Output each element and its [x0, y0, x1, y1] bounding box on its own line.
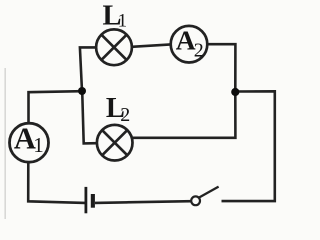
- svg-text:A: A: [176, 25, 196, 56]
- wire: left junction down to lamp L2: [82, 91, 97, 143]
- wire: L1 to A2: [132, 44, 171, 46]
- switch pivot (open circle): [191, 196, 200, 205]
- lamp L2: [97, 125, 133, 161]
- node: left junction dot: [78, 87, 86, 95]
- wire: right junction right, down right edge, bottom to switch contact: [222, 91, 275, 201]
- ammeter A1 circle: [10, 123, 49, 162]
- svg-text:2: 2: [120, 104, 130, 126]
- battery short thick plate: [91, 194, 95, 208]
- svg-text:2: 2: [194, 40, 204, 62]
- ammeter A2 circle: [171, 26, 208, 63]
- scan artifact: faint left edge line: [4, 68, 6, 219]
- battery long plate: [85, 187, 88, 213]
- wire: L1 left to corner down to left junction: [80, 47, 97, 91]
- wire: battery to switch pivot: [95, 201, 191, 203]
- wire: A2 right, corner, down to right junction: [207, 44, 235, 92]
- wire: A1 bottom, corner, right to battery: [28, 162, 85, 203]
- lamp L1: [96, 29, 132, 65]
- svg-text:1: 1: [33, 133, 44, 157]
- node: right junction dot: [231, 88, 239, 96]
- svg-text:1: 1: [118, 11, 128, 32]
- wire: A1 top up-left corner to left junction: [29, 91, 83, 124]
- switch lever: [199, 187, 219, 198]
- wire: right junction down, corner, left to L2: [133, 92, 236, 138]
